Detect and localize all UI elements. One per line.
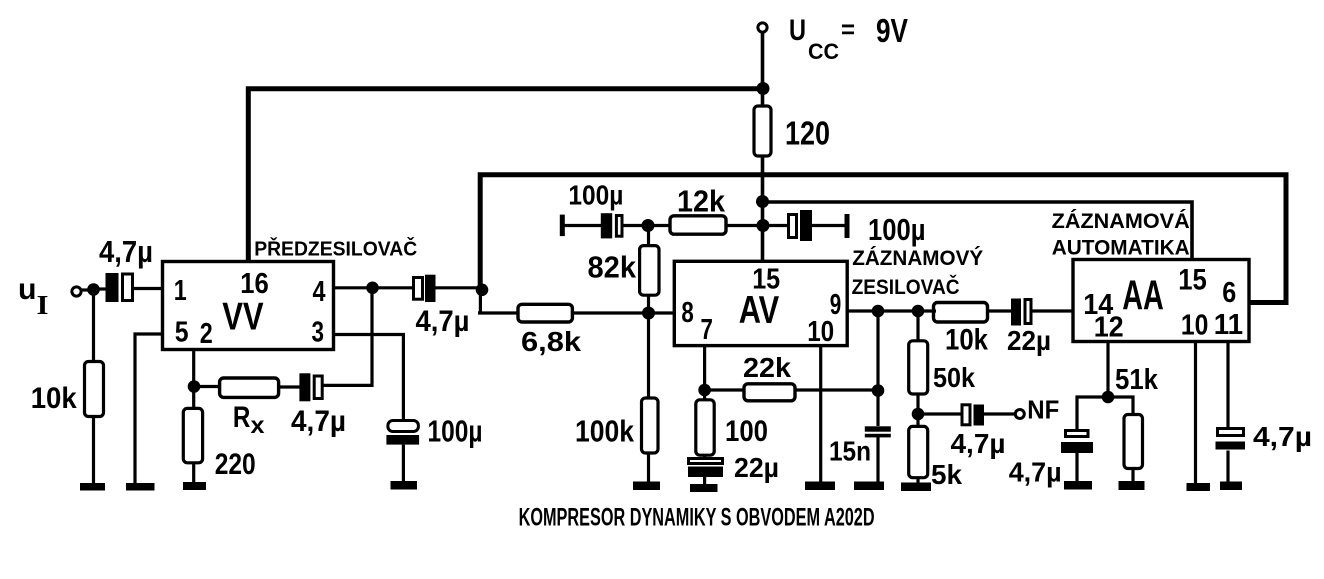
wire 10k to ground bbox=[92, 417, 95, 485]
wire 6,8k to AV pin8 bbox=[572, 311, 675, 314]
wire pin9 node2 down to 50k bbox=[916, 311, 919, 342]
node pin4 junction bbox=[366, 282, 379, 295]
wire AV pin10 to ground bbox=[819, 346, 822, 483]
svg-text:5: 5 bbox=[175, 316, 189, 348]
capacitor C5 100u (right bias) bbox=[789, 210, 813, 241]
resistor 22k bbox=[744, 384, 795, 401]
wire T-stub to C4 bbox=[563, 224, 601, 227]
wire VV pin4 output bbox=[334, 286, 414, 289]
svg-text:AA: AA bbox=[1122, 272, 1164, 319]
node T-stub right of C5 bbox=[845, 214, 850, 238]
svg-text:10k: 10k bbox=[945, 324, 988, 357]
node NF output terminal bbox=[1015, 410, 1024, 419]
svg-text:4,7µ: 4,7µ bbox=[416, 305, 470, 338]
wire 100k to ground bbox=[647, 453, 650, 483]
capacitor C4 100u (left bias) bbox=[601, 213, 622, 238]
wire AV pin7 down bbox=[703, 346, 706, 401]
ground (10k input) bbox=[80, 483, 105, 491]
svg-text:2: 2 bbox=[200, 318, 213, 350]
node supply-to-AA junction bbox=[756, 195, 769, 208]
svg-text:100: 100 bbox=[725, 415, 768, 448]
capacitor C7 4,7u NF out bbox=[962, 405, 984, 426]
svg-text:15n: 15n bbox=[829, 436, 871, 467]
label Ucc = 9V bbox=[789, 12, 908, 64]
svg-text:ZÁZNAMOVÁ: ZÁZNAMOVÁ bbox=[1052, 210, 1190, 233]
wire junction to C1 bbox=[94, 287, 107, 290]
svg-text:4,7µ: 4,7µ bbox=[99, 234, 153, 269]
svg-text:U: U bbox=[789, 14, 806, 47]
wire VV pin2 down bbox=[192, 350, 195, 409]
node 82k top junction bbox=[642, 219, 655, 232]
IC block VV preamplifier bbox=[163, 262, 334, 350]
resistor 10k (input) bbox=[85, 362, 104, 417]
svg-text:10k: 10k bbox=[31, 382, 77, 415]
wire junction to Rx bbox=[194, 385, 220, 388]
wire C5 to T-stub bbox=[812, 224, 845, 227]
svg-text:4,7µ: 4,7µ bbox=[1009, 457, 1062, 488]
wire 5k to ground bbox=[916, 478, 919, 484]
wire C9 to ground bbox=[1226, 451, 1229, 484]
svg-text:AV: AV bbox=[739, 289, 780, 332]
wire 51k to ground bbox=[1131, 469, 1134, 484]
ground (22u) bbox=[690, 484, 718, 492]
wire 120 down to AV pin15 bbox=[761, 156, 765, 262]
svg-text:100µ: 100µ bbox=[568, 180, 623, 211]
wire node A to 6,8k bbox=[478, 311, 519, 314]
wire AA pin11 down bbox=[1226, 342, 1229, 428]
label uI bbox=[18, 273, 49, 320]
wire C3 to node A bbox=[436, 286, 483, 289]
wire 15n to ground bbox=[876, 437, 879, 483]
wire C2 up to pin4 node bbox=[322, 288, 372, 385]
svg-text:82k: 82k bbox=[588, 250, 637, 285]
IC block AV recording amplifier bbox=[674, 261, 847, 345]
svg-text:R: R bbox=[233, 401, 251, 434]
node uI input terminal bbox=[72, 287, 81, 296]
node 22k-15n junction bbox=[872, 384, 885, 397]
ground (C9) bbox=[1220, 482, 1242, 491]
capacitor 100u (pin3) electrolytic bbox=[386, 421, 419, 445]
node Ucc supply terminal bbox=[758, 23, 767, 32]
resistor 6,8k bbox=[518, 304, 572, 322]
svg-text:I: I bbox=[37, 290, 49, 320]
wire VV pin16 up and right to Ucc rail bbox=[248, 89, 763, 263]
svg-text:22µ: 22µ bbox=[1007, 325, 1051, 356]
node Ucc rail junction bbox=[757, 82, 770, 95]
capacitor C9 4,7u electrolytic bbox=[1216, 429, 1246, 450]
resistor 50k bbox=[909, 341, 928, 394]
value Rx bbox=[233, 401, 265, 438]
wire C7 to NF terminal bbox=[984, 412, 1016, 415]
capacitor C6 22u coupling bbox=[1011, 299, 1031, 326]
resistor 120 bbox=[754, 106, 771, 156]
wire Ucc node to C5 bbox=[769, 224, 789, 227]
svg-text:9V: 9V bbox=[876, 12, 908, 49]
svg-text:ZESILOVAČ: ZESILOVAČ bbox=[852, 275, 960, 299]
svg-text:u: u bbox=[18, 273, 37, 306]
ground (100u pin3) bbox=[391, 481, 418, 490]
ground (VV pin5) bbox=[126, 483, 155, 491]
wire 220 to ground bbox=[192, 463, 195, 483]
svg-text:15: 15 bbox=[1178, 264, 1207, 297]
IC block AA recording automatic bbox=[1073, 260, 1249, 342]
ground (100k) bbox=[633, 482, 660, 491]
svg-text:ZÁZNAMOVÝ: ZÁZNAMOVÝ bbox=[852, 246, 983, 270]
node pin12 junction bbox=[1102, 391, 1115, 404]
wire NF node to C7 bbox=[918, 412, 961, 415]
wire 82k top bbox=[647, 226, 650, 247]
node pin2 junction bbox=[188, 380, 201, 393]
resistor 10k (to AA) bbox=[934, 303, 988, 323]
resistor 51k bbox=[1124, 415, 1143, 469]
wire AV pin9 output bbox=[847, 309, 936, 312]
wire C8 to ground bbox=[1075, 453, 1078, 483]
svg-text:11: 11 bbox=[1214, 309, 1243, 341]
wire AA pin10 to ground bbox=[1194, 342, 1197, 486]
svg-text:100µ: 100µ bbox=[428, 414, 483, 449]
svg-text:12: 12 bbox=[1094, 311, 1124, 343]
wire node A vertical bbox=[479, 288, 482, 313]
svg-text:100k: 100k bbox=[575, 414, 635, 449]
svg-text:220: 220 bbox=[215, 448, 256, 481]
svg-text:6,8k: 6,8k bbox=[521, 326, 581, 357]
wire junction down to 10k bbox=[92, 293, 95, 362]
svg-text:NF: NF bbox=[1027, 395, 1059, 425]
svg-text:CC: CC bbox=[808, 39, 839, 64]
resistor 12k bbox=[670, 216, 726, 234]
capacitor 22u (under 100) electrolytic bbox=[688, 455, 723, 485]
ground (15n) bbox=[854, 482, 884, 491]
svg-text:8: 8 bbox=[681, 297, 693, 329]
capacitor C1 4,7u input bbox=[106, 273, 133, 302]
wire pin12 node to 51k bbox=[1108, 397, 1133, 415]
node pin7 junction bbox=[698, 384, 711, 397]
svg-text:120: 120 bbox=[785, 115, 830, 152]
svg-text:22k: 22k bbox=[743, 352, 791, 383]
wire pin9 node down to 15n bbox=[876, 311, 879, 426]
capacitor C8 4,7u electrolytic bbox=[1061, 431, 1093, 454]
ground (C8) bbox=[1064, 481, 1092, 490]
svg-text:51k: 51k bbox=[1115, 364, 1159, 396]
svg-text:4,7µ: 4,7µ bbox=[1253, 421, 1312, 452]
wire AA pin12 down bbox=[1106, 342, 1109, 398]
node T-stub left of 100u bias cap bbox=[560, 215, 565, 237]
ground (AV pin10) bbox=[805, 482, 835, 491]
svg-text:6: 6 bbox=[1222, 277, 1236, 309]
svg-text:4,7µ: 4,7µ bbox=[951, 428, 1006, 459]
wire 82k bottom to pin8 node bbox=[647, 295, 650, 313]
node pin9 junction 1 bbox=[872, 305, 885, 318]
wire C1 to VV pin1 bbox=[134, 287, 163, 290]
resistor 100 bbox=[696, 400, 714, 455]
capacitor C2 4,7u feedback bbox=[299, 373, 322, 401]
wire top feedback loop to AA pin6 bbox=[480, 175, 1286, 303]
wire VV pin5 to ground bbox=[135, 334, 163, 484]
svg-text:4,7µ: 4,7µ bbox=[291, 405, 346, 438]
wire supply to AA pin15 bbox=[763, 202, 1192, 260]
svg-text:7: 7 bbox=[701, 314, 713, 346]
wire 22k to 15n node bbox=[795, 388, 878, 391]
wire 100u to ground bbox=[402, 445, 405, 483]
capacitor C3 4,7u coupling bbox=[414, 275, 436, 302]
svg-text:4: 4 bbox=[313, 276, 326, 308]
svg-text:10: 10 bbox=[807, 316, 834, 348]
wire VV pin3 to 100u bbox=[334, 335, 404, 422]
node input junction bbox=[87, 283, 100, 296]
svg-text:VV: VV bbox=[222, 295, 263, 338]
svg-text:1: 1 bbox=[174, 275, 187, 307]
resistor 100k bbox=[642, 398, 659, 453]
wire pin12 node to C8 bbox=[1077, 397, 1108, 430]
svg-text:50k: 50k bbox=[933, 362, 975, 393]
node pin9 junction 2 bbox=[912, 305, 925, 318]
wire 50k to 5k bbox=[916, 394, 919, 427]
ground (AA pin10) bbox=[1187, 483, 1211, 491]
svg-text:=: = bbox=[841, 14, 855, 44]
resistor 5k bbox=[909, 426, 928, 477]
wire pin8 node down to 100k bbox=[647, 313, 650, 399]
wire 10k to C6 bbox=[988, 309, 1013, 312]
resistor Rx bbox=[220, 378, 279, 397]
wire C4 to 12k bbox=[622, 224, 671, 227]
node NF junction bbox=[912, 408, 925, 421]
resistor 220 bbox=[183, 408, 202, 462]
wire C6 to AA pin14 bbox=[1032, 309, 1075, 312]
svg-text:10: 10 bbox=[1181, 310, 1209, 342]
svg-text:3: 3 bbox=[312, 316, 325, 348]
svg-text:5k: 5k bbox=[931, 459, 962, 490]
svg-text:100µ: 100µ bbox=[868, 212, 926, 247]
node A junction bbox=[476, 284, 489, 297]
svg-text:22µ: 22µ bbox=[734, 452, 779, 483]
wire Ucc terminal down bbox=[761, 32, 765, 107]
wire pin7 node to 22k bbox=[705, 388, 745, 391]
node Ucc bias junction bbox=[757, 219, 770, 232]
capacitor 15n bbox=[865, 426, 891, 437]
wire input to junction bbox=[81, 288, 93, 291]
resistor 82k bbox=[640, 246, 659, 296]
wire Rx to C2 bbox=[279, 385, 300, 388]
svg-text:x: x bbox=[251, 412, 265, 438]
svg-text:KOMPRESOR DYNAMIKY S OBVODEM A: KOMPRESOR DYNAMIKY S OBVODEM A202D bbox=[519, 504, 875, 532]
ground (51k) bbox=[1119, 481, 1145, 490]
svg-text:12k: 12k bbox=[677, 184, 726, 219]
node pin8 junction bbox=[642, 307, 655, 320]
wire 12k to Ucc node bbox=[726, 224, 764, 227]
svg-text:PŘEDZESILOVAČ: PŘEDZESILOVAČ bbox=[254, 237, 417, 261]
ground (5k) bbox=[901, 483, 931, 492]
ground (220) bbox=[183, 482, 206, 490]
svg-text:AUTOMATIKA: AUTOMATIKA bbox=[1052, 237, 1190, 260]
